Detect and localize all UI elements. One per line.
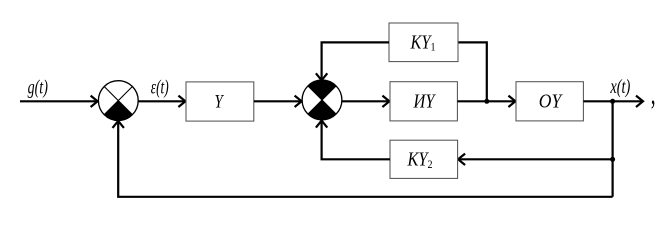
block У xyxy=(186,82,254,121)
block ИУ xyxy=(390,82,457,121)
wire КУ2 output to S2 bottom xyxy=(316,121,390,160)
block КУ1 xyxy=(389,23,458,62)
summing junction S2 xyxy=(302,80,342,120)
svg-text:x(t): x(t) xyxy=(609,74,630,97)
summing junction S1 xyxy=(98,81,138,121)
node output tap dot xyxy=(610,99,615,104)
node tap T1 (junction dot after ИУ) xyxy=(484,99,489,104)
block КУ2 xyxy=(390,140,458,178)
wire outer feedback (bottom loop) xyxy=(113,121,613,197)
svg-text:ОY: ОY xyxy=(539,91,563,113)
wire output tap down xyxy=(611,101,613,197)
wire S1 to block У xyxy=(138,96,185,107)
wire input g(t) xyxy=(20,96,98,107)
wire КУ1 output to S2 top xyxy=(316,42,389,80)
wire ОУ to output xyxy=(583,96,643,107)
svg-text:ИY: ИY xyxy=(413,90,437,112)
wire tap to КУ2 input xyxy=(458,154,613,165)
node tap dot at КУ2 branch xyxy=(610,157,615,162)
svg-text:g(t): g(t) xyxy=(28,76,48,98)
svg-text:ε(t): ε(t) xyxy=(151,76,169,98)
wire tap T1 up to КУ1 input xyxy=(458,42,487,101)
block ОУ xyxy=(516,82,583,121)
wire ИУ to ОУ xyxy=(457,96,515,107)
wire S2 to ИУ xyxy=(342,96,390,107)
wire У to S2 xyxy=(254,96,302,107)
svg-text:,: , xyxy=(651,75,656,111)
